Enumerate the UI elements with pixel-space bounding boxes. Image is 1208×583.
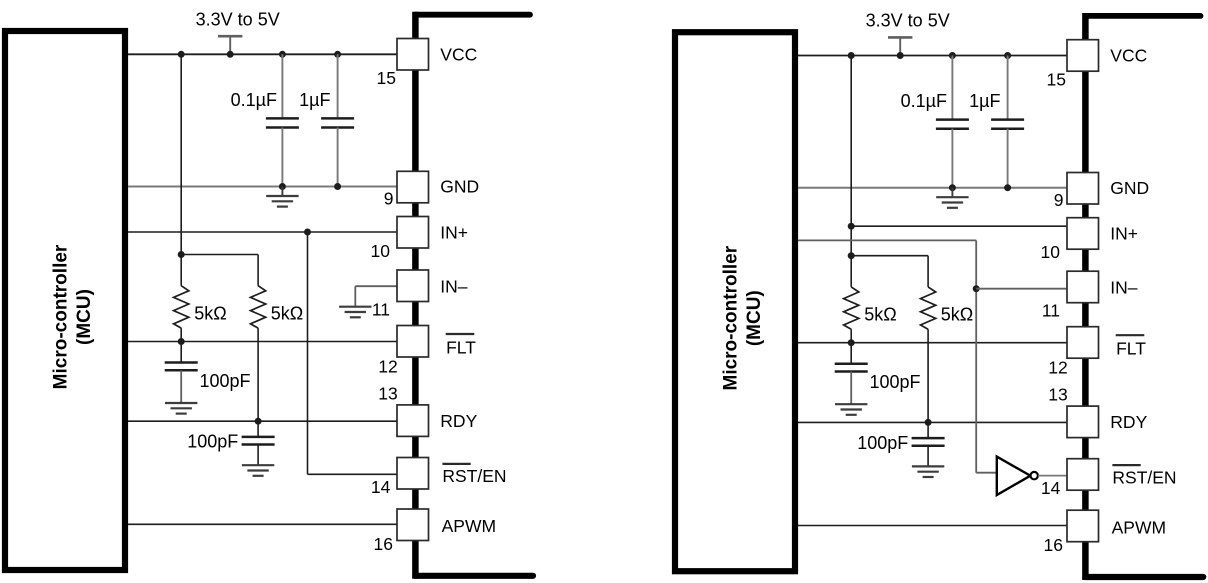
svg-text:100pF: 100pF (857, 433, 908, 453)
svg-text:VCC: VCC (440, 44, 477, 64)
svg-text:100pF: 100pF (187, 432, 238, 452)
svg-text:APWM: APWM (1112, 517, 1166, 537)
resistor R1 5k (174, 286, 189, 328)
svg-text:13: 13 (1048, 385, 1067, 405)
svg-text:9: 9 (384, 189, 394, 209)
pin box GND (397, 171, 429, 203)
junction divider branch (848, 252, 855, 259)
wire RDY net: MCU to RDY pin (798, 421, 1067, 423)
svg-text:5kΩ: 5kΩ (271, 303, 303, 323)
svg-text:RDY: RDY (440, 411, 477, 431)
svg-text:1µF: 1µF (299, 90, 330, 110)
ground symbol below GND wire (951, 188, 953, 198)
pin box IN– (397, 270, 429, 302)
svg-text:IN–: IN– (1110, 278, 1138, 298)
svg-text:11: 11 (1042, 301, 1060, 321)
wire GND net: MCU to GND pin (798, 187, 1070, 189)
wire R2 bottom lead to RDY net (927, 329, 929, 422)
junction pull-up vertical on VCC (178, 51, 185, 58)
junction C-0.1uF on VCC (279, 51, 286, 58)
gate-driver side bus (thick device edge) (1082, 13, 1089, 580)
wire VCC net: MCU to VCC pin (798, 55, 1067, 57)
ground symbol below GND wire (281, 187, 283, 197)
junction R1/C on FLT (178, 338, 185, 345)
capacitor C-1uF (1007, 56, 1009, 120)
svg-text:10: 10 (371, 241, 391, 261)
pin box FLT (1067, 327, 1099, 359)
svg-text:3.3V to 5V: 3.3V to 5V (866, 11, 950, 31)
wire inverter output to RST pin (1038, 475, 1067, 477)
svg-text:FLT: FLT (446, 338, 476, 358)
svg-text:(MCU): (MCU) (744, 290, 765, 346)
bus bottom bend (415, 573, 533, 579)
svg-text:Micro-controller: Micro-controller (51, 244, 72, 389)
svg-text:15: 15 (1047, 69, 1066, 89)
svg-text:3.3V to 5V: 3.3V to 5V (196, 10, 280, 30)
wire R1 bottom lead to FLT net (180, 328, 182, 341)
wire RDY net: MCU to RDY pin (128, 420, 397, 422)
capacitor C-100pF (FLT) (180, 342, 182, 363)
junction C-0.1uF on GND (279, 183, 286, 190)
pin box RST/EN (1067, 459, 1099, 491)
svg-text:100pF: 100pF (200, 371, 251, 391)
svg-text:12: 12 (1048, 358, 1067, 378)
svg-text:(MCU): (MCU) (74, 289, 95, 345)
junction IN- tap (973, 285, 980, 292)
inverter bubble (1031, 472, 1038, 479)
capacitor C-100pF (FLT) (850, 343, 852, 364)
capacitor C-100pF (RDY) (927, 422, 929, 438)
junction C-1uF on GND (1004, 184, 1011, 191)
bus bottom bend (1085, 574, 1203, 580)
pin box RDY (397, 405, 429, 437)
MCU block U1 (Micro-controller) (5, 31, 125, 570)
capacitor C-1uF (337, 54, 339, 118)
wire APWM net: MCU to APWM pin (798, 525, 1067, 527)
junction C-1uF on VCC (1004, 52, 1011, 59)
junction C-1uF on GND (334, 183, 341, 190)
pin box APWM (1067, 510, 1099, 542)
junction C-0.1uF on GND (949, 184, 956, 191)
junction R2/C on RDY (925, 419, 932, 426)
resistor R2 5k (921, 287, 936, 329)
wire R1 bottom lead to FLT net (850, 329, 852, 342)
junction C-1uF on VCC (334, 51, 341, 58)
pin box FLT (397, 326, 429, 358)
inverter U3 (NOT gate) (997, 457, 1031, 495)
svg-text:RST/EN: RST/EN (1112, 467, 1176, 487)
MCU label text (51, 244, 96, 389)
supply symbol 3.3V-5V (888, 36, 912, 39)
wire RST/EN tap: IN+ down to RST pin (307, 232, 309, 474)
svg-text:RDY: RDY (1110, 412, 1147, 432)
pin box IN+ (1067, 218, 1099, 250)
svg-text:10: 10 (1041, 242, 1061, 262)
resistor R2 5k (251, 286, 266, 328)
svg-text:IN–: IN– (440, 277, 468, 297)
svg-text:13: 13 (378, 383, 397, 403)
svg-text:5kΩ: 5kΩ (194, 303, 226, 323)
wire APWM net: MCU to APWM pin (128, 523, 397, 525)
wire VCC net: MCU to VCC pin (128, 53, 397, 55)
junction C-0.1uF on VCC (949, 52, 956, 59)
ground symbol below RDY cap (912, 465, 944, 467)
pin box RDY (1067, 406, 1099, 438)
pin box VCC (1067, 40, 1099, 71)
svg-text:0.1µF: 0.1µF (231, 90, 277, 110)
wire vertical from VCC to divider (180, 54, 182, 285)
svg-text:16: 16 (374, 534, 393, 554)
svg-text:5kΩ: 5kΩ (864, 305, 896, 325)
svg-text:14: 14 (1041, 478, 1061, 498)
wire IN+ net: MCU to IN+ pin (128, 231, 397, 233)
svg-text:14: 14 (371, 477, 391, 497)
wire PWM net: MCU to inverter input (798, 239, 976, 241)
svg-text:11: 11 (372, 299, 390, 319)
junction divider branch (178, 251, 185, 258)
junction IN+ on pull-up vertical (848, 223, 855, 230)
pin box IN+ (397, 217, 429, 249)
svg-text:15: 15 (377, 68, 396, 88)
svg-text:9: 9 (1054, 190, 1064, 210)
MCU block U2 (Micro-controller) (675, 32, 795, 571)
pin box APWM (397, 509, 429, 541)
pin box IN– (1067, 271, 1099, 303)
svg-text:1µF: 1µF (969, 91, 1000, 111)
wire branch to resistor R2 (181, 254, 258, 256)
bus top bend (415, 12, 530, 18)
svg-text:APWM: APWM (442, 516, 496, 536)
pin box VCC (397, 39, 429, 71)
svg-text:0.1µF: 0.1µF (901, 91, 947, 111)
wire IN+ net: pull-up to IN+ pin (851, 225, 1067, 227)
capacitor C-0.1uF (951, 56, 953, 120)
svg-text:100pF: 100pF (870, 372, 921, 392)
MCU label text (721, 245, 766, 390)
svg-text:16: 16 (1044, 535, 1063, 555)
wire R2 bottom lead to RDY net (257, 328, 259, 421)
svg-text:5kΩ: 5kΩ (941, 305, 973, 325)
capacitor C-0.1uF (281, 54, 283, 118)
supply symbol 3.3V-5V (218, 35, 242, 38)
wire IN- to ground (355, 285, 397, 287)
junction R2/C on RDY (255, 418, 262, 425)
ground symbol below FLT cap (165, 402, 197, 404)
pin box RST/EN (397, 458, 429, 490)
wire FLT net: MCU to FLT pin (128, 341, 397, 343)
gate-driver side bus (thick device edge) (412, 12, 419, 579)
junction supply (897, 52, 904, 59)
svg-text:IN+: IN+ (440, 222, 468, 242)
svg-text:VCC: VCC (1110, 46, 1147, 66)
wire GND net: MCU to GND pin (128, 186, 400, 188)
svg-text:12: 12 (378, 356, 397, 376)
svg-text:GND: GND (440, 177, 479, 197)
svg-text:GND: GND (1110, 178, 1149, 198)
ground symbol below FLT cap (835, 403, 867, 405)
svg-text:Micro-controller: Micro-controller (721, 245, 742, 390)
junction supply (227, 51, 234, 58)
ground symbol at IN- (339, 306, 371, 308)
ground symbol below RDY cap (242, 464, 274, 466)
svg-text:IN+: IN+ (1110, 224, 1138, 244)
pin box GND (1067, 173, 1099, 205)
wire branch to resistor R2 (851, 255, 928, 257)
svg-text:FLT: FLT (1116, 339, 1146, 359)
junction RST tap on IN+ (304, 229, 311, 236)
capacitor C-100pF (RDY) (257, 421, 259, 437)
wire IN- net: tap to IN- pin (976, 288, 1067, 290)
svg-text:RST/EN: RST/EN (442, 466, 506, 486)
wire FLT net: MCU to FLT pin (798, 342, 1067, 344)
resistor R1 5k (844, 287, 859, 329)
bus top bend (1085, 13, 1200, 19)
wire vertical from VCC to divider (850, 56, 852, 287)
junction R1/C on FLT (848, 339, 855, 346)
junction pull-up vertical on VCC (848, 52, 855, 59)
